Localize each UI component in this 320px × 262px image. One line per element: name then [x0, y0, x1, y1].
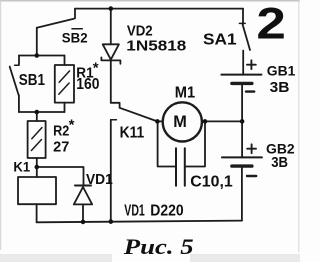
battery GB1 negative plate — [232, 82, 252, 85]
switch SA1 lever — [243, 25, 250, 51]
wire SB1 bottom lead — [18, 95, 20, 112]
wire main rail lower segment — [110, 120, 112, 222]
svg-text:C10,1: C10,1 — [190, 174, 232, 191]
switch SB1 tick — [15, 64, 19, 66]
capacitor C1 left plate — [175, 148, 177, 185]
node dot rail right — [240, 119, 245, 124]
capacitor C1 right plate — [184, 148, 186, 185]
wire GB2 bottom lead — [241, 168, 243, 221]
svg-text:3В: 3В — [271, 154, 288, 171]
switch SB2 actuator dash — [72, 28, 82, 30]
battery GB2 positive plate — [222, 156, 262, 158]
switch SB1 top lead — [18, 56, 20, 65]
border right — [298, 0, 300, 252]
contact K1.1 lower tick — [111, 119, 117, 121]
border left — [0, 0, 2, 250]
motor M1 body — [163, 102, 202, 141]
border top — [0, 0, 300, 2]
wire main rail top segment — [110, 9, 112, 45]
resistor R2 slash 1 — [32, 128, 42, 139]
svg-text:2: 2 — [256, 0, 286, 49]
wire left drop to node A — [36, 28, 38, 56]
resistor R1 slash 1 — [59, 71, 69, 82]
resistor R1 bottom lead — [64, 103, 66, 112]
svg-text:K11: K11 — [120, 125, 145, 142]
resistor R1 body — [55, 65, 74, 103]
svg-text:SB1: SB1 — [19, 72, 45, 89]
battery GB2 negative plate — [232, 164, 252, 167]
node dot motor right — [203, 119, 208, 124]
node dot bottom VD1 — [81, 220, 86, 225]
relay K1 bottom lead — [36, 204, 38, 222]
diode VD2 triangle — [103, 44, 119, 59]
switch SB2 lever — [37, 19, 74, 28]
node dot motor left — [155, 119, 160, 124]
wire node C horizontal to VD1 — [37, 167, 84, 185]
scan noise bottom-right — [190, 254, 300, 262]
diode VD1 cathode bar — [75, 185, 91, 187]
node dot B — [35, 110, 40, 115]
wire bottom rail — [37, 221, 242, 223]
svg-text:GB1: GB1 — [267, 63, 296, 79]
svg-text:VD1: VD1 — [86, 171, 113, 188]
svg-text:R2: R2 — [53, 123, 69, 140]
svg-text:*: * — [69, 117, 75, 134]
node dot C — [35, 165, 40, 170]
node dot A — [35, 53, 40, 58]
wire SB2 top lead — [74, 9, 76, 19]
GB2 minus sign — [247, 175, 256, 177]
svg-text:K1: K1 — [13, 158, 30, 174]
diode VD1 bottom lead — [82, 204, 84, 222]
scan noise bottom-left — [0, 254, 112, 262]
relay K1 coil body — [18, 177, 56, 204]
wire capacitor right branch — [185, 121, 205, 166]
svg-text:3В: 3В — [270, 79, 290, 96]
wire capacitor left branch — [158, 121, 176, 166]
svg-text:VD1: VD1 — [124, 202, 145, 219]
wire top rail — [75, 8, 243, 10]
svg-text:M1: M1 — [175, 85, 195, 102]
node dot top rail — [109, 6, 114, 11]
svg-text:Рис. 5: Рис. 5 — [123, 234, 194, 259]
contact K1.1 lever — [120, 108, 158, 122]
wire SA1 bottom lead — [242, 51, 244, 75]
GB2 plus sign — [247, 144, 256, 153]
switch SB1 lever — [10, 67, 19, 95]
resistor R2 body — [28, 121, 46, 158]
resistor R2 bottom lead — [36, 158, 38, 167]
svg-text:*: * — [93, 60, 99, 77]
contact K1.1 fixed hook — [111, 103, 120, 108]
svg-text:M: M — [173, 112, 187, 131]
svg-text:D220: D220 — [150, 202, 183, 219]
svg-text:SA1: SA1 — [203, 32, 237, 49]
switch SA1 top lead — [242, 9, 244, 24]
svg-text:1N5818: 1N5818 — [126, 38, 186, 55]
wire motor right lead to rail — [202, 120, 242, 122]
svg-text:SB2: SB2 — [62, 30, 88, 46]
GB1 plus sign — [247, 60, 256, 69]
svg-text:160: 160 — [76, 76, 99, 93]
diode VD2 schottky cathode bar — [101, 57, 120, 63]
wire GB1 to GB2 — [241, 85, 243, 157]
resistor R2 top lead — [36, 112, 38, 121]
diode VD1 triangle — [74, 187, 92, 204]
wire node A horizontal — [19, 55, 65, 57]
GB1 minus sign — [246, 90, 254, 92]
wire node B horizontal — [19, 111, 65, 113]
wire main rail mid segment — [110, 60, 112, 102]
resistor R1 slash 2 — [59, 83, 69, 94]
resistor R2 slash 2 — [31, 140, 41, 151]
relay K1 coil top lead — [36, 167, 38, 177]
wire motor left lead — [157, 120, 163, 122]
battery GB1 positive plate — [221, 74, 261, 76]
resistor R1 top lead — [64, 56, 66, 66]
svg-text:27: 27 — [53, 139, 69, 156]
node dot bottom rail — [109, 219, 114, 224]
switch SA1 tick — [239, 22, 245, 24]
